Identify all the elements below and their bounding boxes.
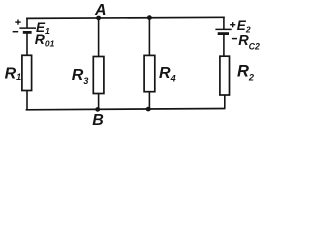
svg-text:RC2: RC2: [238, 33, 260, 52]
junction dot bottom of R4 branch: [146, 107, 151, 112]
wire R3 branch: node A to resistor R3: [98, 18, 100, 57]
svg-text:R01: R01: [35, 31, 55, 49]
wire right branch: battery E2 to resistor R2: [223, 34, 225, 57]
resistor R1 body: [22, 55, 32, 90]
svg-text:R3: R3: [72, 67, 89, 86]
wire R4 branch: top bus junction to resistor R4: [148, 18, 150, 56]
wire right branch: top corner stub down to battery E2: [223, 17, 225, 29]
node B junction dot: [95, 107, 100, 112]
wire left branch: battery E1 to resistor R1: [26, 32, 28, 55]
svg-text:R1: R1: [5, 66, 22, 83]
svg-text:A: A: [94, 2, 107, 19]
battery E1 positive plate: [19, 27, 36, 29]
wire R3 branch: resistor R3 to node B: [98, 94, 100, 110]
resistor R3 body: [93, 57, 104, 94]
wire bottom bus (node B rail): [26, 109, 226, 110]
wire top bus from E1 corner to E2 corner: [26, 17, 225, 18]
resistor R4 body: [144, 55, 155, 91]
plus sign of E2: [230, 22, 235, 27]
minus sign of E2: [232, 38, 237, 40]
battery E2 positive plate: [215, 28, 231, 30]
wire left branch: top corner stub down to battery E1: [26, 18, 28, 29]
svg-text:R4: R4: [159, 65, 176, 84]
minus sign of E1: [13, 31, 19, 33]
svg-text:B: B: [92, 112, 104, 129]
resistor R2 body: [220, 56, 230, 95]
junction dot top of R4 branch: [147, 15, 152, 20]
plus sign of E1: [15, 20, 20, 25]
wire left branch: resistor R1 to bottom bus: [26, 91, 28, 110]
node A junction dot: [96, 16, 101, 21]
battery E2 negative plate: [218, 32, 229, 35]
battery E1 negative plate: [23, 31, 32, 34]
wire right branch: resistor R2 to bottom bus: [224, 95, 226, 108]
svg-text:R2: R2: [237, 63, 255, 83]
wire R4 branch: resistor R4 to bottom bus: [148, 92, 150, 110]
